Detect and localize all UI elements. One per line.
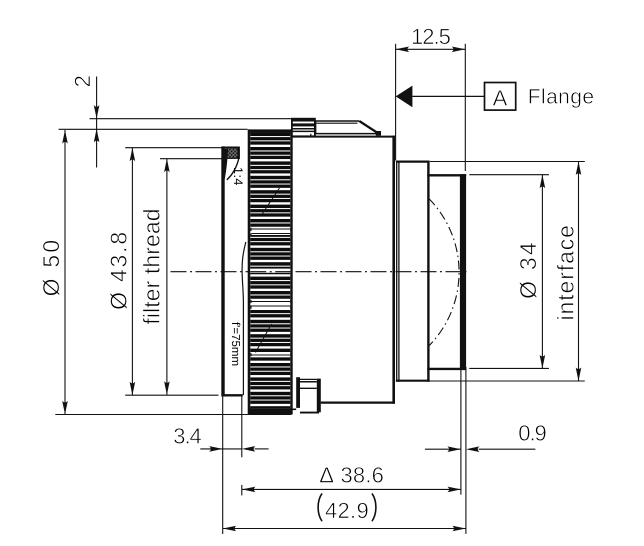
svg-text:0.9: 0.9 [518, 421, 546, 446]
thumbscrew (top knurled screw) [292, 118, 315, 136]
knurl texture diagonals [263, 188, 280, 214]
svg-text:1:4: 1:4 [231, 167, 245, 186]
svg-text:f'=75mm: f'=75mm [229, 322, 241, 366]
dim Ø34: dimension line and arrows [540, 175, 546, 369]
centerline (optical axis) [171, 271, 467, 273]
main body [292, 136, 395, 404]
datum A triangle [396, 86, 413, 108]
dim 0.9: dimension line and arrows [425, 446, 536, 452]
svg-text:2: 2 [70, 75, 95, 87]
front ring section wedge [222, 149, 228, 180]
datum A leader [412, 95, 484, 97]
dim interface: extension lines [430, 161, 585, 163]
svg-text:Ø 34: Ø 34 [515, 240, 541, 299]
dim 12.5: dimension line and arrows [396, 47, 466, 53]
interface cylinder [427, 174, 466, 370]
dim Ø43.8: extension lines [125, 147, 222, 149]
bottom clamp tab [292, 377, 321, 413]
svg-text:filter thread: filter thread [138, 208, 164, 324]
front ring (filter ring) body [222, 146, 246, 396]
dim 2: extension lines [90, 118, 292, 120]
rear lens phantom arc [429, 199, 459, 347]
svg-text:Ø 50: Ø 50 [38, 238, 64, 297]
svg-text:3.4: 3.4 [173, 424, 201, 449]
svg-text:Δ 38.6: Δ 38.6 [319, 462, 384, 487]
svg-text:interface: interface [553, 224, 579, 320]
svg-text:12.5: 12.5 [411, 24, 451, 49]
dim 2: dimension line and arrows [94, 77, 100, 168]
datum A box [485, 83, 516, 111]
dim 3.4: dimension line and arrows [200, 446, 268, 452]
flange ring [396, 161, 430, 382]
dim Ø50: bottom extension line [55, 414, 291, 416]
front bevel arc [227, 158, 239, 179]
knurl centerline gap [250, 269, 290, 273]
dim Ø50: dimension line and arrows [62, 130, 68, 414]
dim 0.9: extension lines [460, 370, 462, 495]
svg-text:Flange: Flange [528, 86, 595, 109]
knurl irregular thin-stripe zones [252, 227, 291, 357]
lever plate (top tab) [311, 121, 381, 137]
dim filter thread: dimension line and arrows [164, 159, 170, 395]
dim 38.6: extension overshoot [241, 485, 243, 496]
dim filter thread: extension line [160, 158, 223, 160]
filter thread hatch section [222, 147, 240, 159]
dim interface: dimension line and arrows [576, 162, 582, 382]
dim Ø43.8: dimension line and arrows [130, 148, 136, 396]
svg-text:A: A [493, 86, 508, 111]
dim Ø34: extension lines [469, 174, 549, 176]
svg-text:42.9: 42.9 [325, 498, 369, 523]
svg-text:Ø 43.8: Ø 43.8 [106, 230, 132, 310]
dim 42.9: dimension line and arrows [223, 526, 466, 532]
dim 12.5: extension lines [395, 44, 397, 161]
dim 38.6: dimension line and arrows [242, 487, 461, 493]
dim 3.4: extension lines [222, 396, 224, 534]
focus knurl ring [249, 129, 292, 414]
